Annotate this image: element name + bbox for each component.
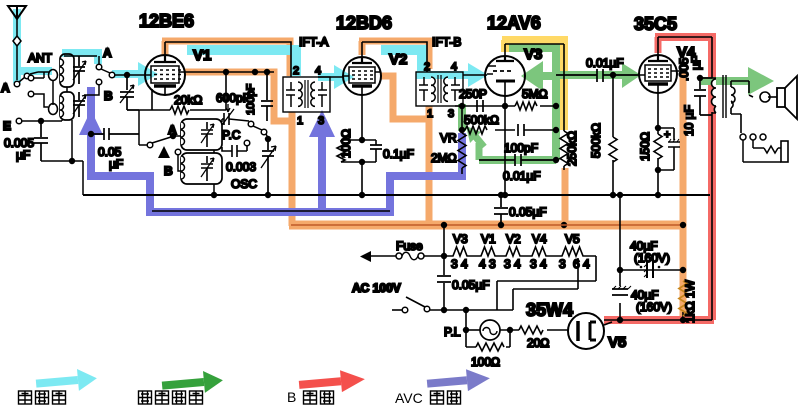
capacitor 0.01uF to V4 grid <box>556 69 639 82</box>
svg-text:0.01μF: 0.01μF <box>586 56 624 70</box>
wire switch to antenna coil <box>30 72 49 74</box>
wire osc boxes to ground <box>213 150 215 195</box>
wire cyan band + arrow into V1 grid <box>112 70 138 78</box>
svg-text:3: 3 <box>559 257 566 271</box>
wire green band: audio through 0.01uF coupling <box>479 156 556 164</box>
wire switch blade to V1 grid <box>101 69 110 73</box>
wire OPT secondary to speaker and jack <box>731 81 753 97</box>
svg-text:V5: V5 <box>608 334 626 351</box>
svg-text:3 4: 3 4 <box>504 257 521 271</box>
svg-text:500kΩ: 500kΩ <box>464 113 499 127</box>
wire green band + arrow: audio to V4 grid <box>560 71 624 79</box>
legend arrow 高周波 (RF) <box>35 367 98 394</box>
svg-text:35C5: 35C5 <box>634 14 677 34</box>
svg-text:0.05μF: 0.05μF <box>509 205 547 219</box>
svg-text:(160V): (160V) <box>636 300 672 314</box>
svg-text:2: 2 <box>293 65 299 77</box>
resistor 100 ohm shunt <box>466 330 510 347</box>
svg-text:VR: VR <box>440 131 457 145</box>
svg-text:4 3: 4 3 <box>479 257 496 271</box>
capacitor VC2 (tuning, lower) <box>73 92 85 117</box>
wire orange band: V2 plate feed to IFT-B <box>359 41 366 55</box>
wire cyan band: V1 plate IF signal to IFT-A pin2 <box>187 50 296 76</box>
wire orange band: V4 screen down to B+ bus <box>680 71 687 225</box>
svg-text:Fuse: Fuse <box>396 239 423 253</box>
wire green arrow pointing back into V3 <box>541 72 554 80</box>
svg-text:(160V): (160V) <box>634 251 670 265</box>
volume control VR 500k with wiper <box>462 106 465 130</box>
legend arrow AVC 電圧 (AVC voltage) <box>426 367 491 394</box>
svg-text:12BE6: 12BE6 <box>139 11 194 31</box>
antenna coil T1 primary (upper loop) <box>28 75 34 81</box>
antenna <box>8 6 26 19</box>
fuse <box>360 251 371 262</box>
wire orange band: B+ bus down through 1k filter resistor <box>680 225 687 318</box>
wire green band + arrow: output transformer to speaker <box>701 77 750 85</box>
capacitor (padder in box B) <box>201 156 213 181</box>
resistor VR 2M ohm (volume) <box>458 133 466 174</box>
svg-text:+: + <box>664 129 670 141</box>
svg-text:10 μF: 10 μF <box>682 105 696 136</box>
wire yellow band: V3 plate load <box>501 40 509 52</box>
wire orange band: IFT-A pin1 down to B+ bus <box>289 112 296 226</box>
wire cyan band: switch to antenna coil primary <box>21 67 52 75</box>
svg-text:100Ω: 100Ω <box>471 355 500 369</box>
wire orange band: V1 screen grid feed <box>184 72 291 121</box>
svg-text:V4: V4 <box>532 232 547 246</box>
svg-text:12AV6: 12AV6 <box>487 13 541 33</box>
wire V2 plate to IFT-B pin2 <box>362 42 427 72</box>
svg-text:B: B <box>287 389 296 405</box>
node A (coil selector contact) <box>96 64 102 70</box>
svg-text:V1: V1 <box>481 232 496 246</box>
antenna coil T1 lower secondary winding <box>60 92 74 120</box>
svg-text:6 4: 6 4 <box>573 257 590 271</box>
svg-text:AC 100V: AC 100V <box>352 281 401 295</box>
svg-text:V3: V3 <box>453 232 468 246</box>
wire orange band: 250k feeder up from bus <box>562 168 569 225</box>
svg-text:V3: V3 <box>524 46 542 63</box>
wire IFT-A pin4 to V2 grid <box>318 76 343 78</box>
capacitor 0.01uF audio coupling <box>479 154 556 166</box>
wire AC feed riser <box>443 225 445 310</box>
resistor 20 ohm <box>519 326 568 334</box>
svg-text:0.01μF: 0.01μF <box>503 169 541 183</box>
wire cyan band + arrow: IFT-A pin4 to V2 grid <box>318 73 336 81</box>
svg-text:3 4: 3 4 <box>530 257 547 271</box>
oscillator coil box A (upper) <box>181 119 222 150</box>
wire AVC blue arrowhead on antenna coil feeder <box>79 110 103 135</box>
wire orange band: V1 plate to IFT-A pin2 (B voltage) <box>162 41 169 55</box>
wire V1 screen feed <box>184 71 274 73</box>
svg-text:250kΩ: 250kΩ <box>565 131 579 166</box>
svg-text:35W4: 35W4 <box>526 300 573 320</box>
wire B+ bus <box>291 224 683 226</box>
svg-text:20kΩ: 20kΩ <box>174 93 202 107</box>
resistor 150 ohm cathode + capacitor 10uF <box>657 95 659 195</box>
svg-text:OSC: OSC <box>231 177 257 191</box>
svg-text:A: A <box>1 81 10 95</box>
svg-text:μF: μF <box>689 56 703 70</box>
node B (coil selector contact) <box>96 79 102 85</box>
svg-text:100Ω: 100Ω <box>339 129 353 158</box>
capacitor 0.003 (osc coupling) <box>244 140 250 146</box>
svg-text:μF: μF <box>109 157 123 171</box>
wire cyan band + arrow: IFT-B pin4 along box top to V3 grid <box>416 71 470 79</box>
resistor 20k ohm <box>139 74 226 110</box>
capacitor (osc grid trimmer) <box>120 75 139 110</box>
svg-text:IFT-A: IFT-A <box>299 35 328 49</box>
wire coil top to tuning line <box>64 55 97 57</box>
capacitor 0.05uF B+ bypass <box>494 195 508 225</box>
wire AVC bus <box>152 210 390 212</box>
svg-text:B: B <box>164 164 173 178</box>
earphone jack circle <box>760 92 770 102</box>
svg-text:3: 3 <box>318 115 324 127</box>
resistor 1k ohm 1W filter <box>682 312 684 320</box>
resistor 100 ohm cathode bias + capacitor 0.1uF <box>341 95 376 195</box>
wire rectifier output <box>604 320 712 325</box>
svg-text:4: 4 <box>315 65 321 77</box>
wire green band: detector output down to volume control <box>458 104 466 131</box>
svg-text:A: A <box>103 46 112 60</box>
transformer OPT output <box>712 79 717 113</box>
svg-text:250P: 250P <box>459 87 487 101</box>
capacitor 40uF (160V) second filter <box>612 289 628 295</box>
wire V3 plate up (to load and audio takeoff) <box>505 44 564 131</box>
svg-text:150Ω: 150Ω <box>638 132 652 161</box>
svg-text:0.05μF: 0.05μF <box>452 278 490 292</box>
svg-text:600pF: 600pF <box>216 91 250 105</box>
node B (osc selector) <box>158 146 170 158</box>
antenna coil T1 secondary (upper winding) <box>60 54 74 87</box>
svg-text:1: 1 <box>427 108 433 120</box>
tube V1 12BE6 converter <box>145 55 185 95</box>
resistor 250k ohm plate load <box>560 131 568 170</box>
legend arrow 音声信号 (audio) <box>161 369 224 396</box>
svg-text:4: 4 <box>451 61 457 73</box>
wire cyan band: V2 plate IF to IFT-B pin2 <box>381 50 422 71</box>
tube V2 12BD6 IF amplifier <box>343 57 381 95</box>
wire AVC blue band + arrow: feeder to IFT-A pin3 <box>318 134 326 212</box>
svg-text:V1: V1 <box>193 47 211 64</box>
wire bottom of antenna coil to ground rail <box>41 120 83 195</box>
wire orange band: IFT-B pin1 down to B+ bus <box>426 106 433 226</box>
svg-text:B: B <box>104 89 113 103</box>
wire orange band: V2 screen feed <box>381 76 429 119</box>
capacitor 40uF (160V) first filter <box>620 269 683 271</box>
resistor 5M ohm <box>505 105 556 107</box>
svg-text:20Ω: 20Ω <box>527 336 549 350</box>
svg-text:1: 1 <box>297 115 303 127</box>
speaker SP <box>777 88 785 107</box>
svg-text:V2: V2 <box>389 51 407 68</box>
tube V4 35C5 output <box>639 55 677 93</box>
svg-text:IFT-B: IFT-B <box>432 35 461 49</box>
wire cyan band: coil secondary top to A contact <box>62 53 98 64</box>
wire diode line with capacitor 250P <box>455 105 505 107</box>
svg-text:E: E <box>3 119 11 133</box>
node A (antenna selector switch) <box>14 81 20 87</box>
antenna coil T1 lower primary loop <box>28 91 34 97</box>
wire AVC blue band: main run <box>91 87 462 212</box>
svg-text:V5: V5 <box>565 232 580 246</box>
ground bus <box>83 194 710 196</box>
svg-text:0.1μF: 0.1μF <box>383 147 414 161</box>
wire grid return riser <box>138 110 140 145</box>
capacitor VC1 (tuning, upper) <box>73 56 85 84</box>
wire B+ bus orange band <box>289 221 686 230</box>
svg-text:12BD6: 12BD6 <box>336 13 392 33</box>
wire V4 plate to output transformer <box>658 37 712 320</box>
legend arrow B 電圧 (B voltage) <box>298 368 366 396</box>
wire green band: V3 plate audio <box>509 48 556 160</box>
svg-text:P.C: P.C <box>222 128 241 142</box>
svg-text:1kΩ 1W: 1kΩ 1W <box>683 279 697 323</box>
svg-text:2MΩ: 2MΩ <box>431 151 457 165</box>
wire filter rail <box>619 195 621 320</box>
heater chain V3 V1 V2 V4 V5 <box>452 247 596 256</box>
capacitor (osc section of tuning gang) <box>262 138 274 195</box>
capacitor 100pF <box>261 72 273 121</box>
svg-text:5MΩ: 5MΩ <box>522 87 548 101</box>
svg-text:ANT: ANT <box>28 51 53 65</box>
capacitor 0.005uF <box>34 121 48 161</box>
svg-text:P.L: P.L <box>444 325 461 339</box>
capacitor 0.05uF (AVC decoupling) <box>89 132 93 136</box>
tube V3 12AV6 detector/AF amp <box>485 56 525 96</box>
tube V5 35W4 rectifier <box>568 313 604 349</box>
capacitor (padder in box A) <box>201 122 213 147</box>
wire V3 cathode down to ground <box>504 96 506 195</box>
wire red band: V4 plate B voltage <box>655 37 662 53</box>
wire green wiper arrow on VR <box>475 136 484 147</box>
capacitor 100pF <box>518 124 524 136</box>
capacitor .005uF tone <box>694 78 712 115</box>
svg-text:100pF: 100pF <box>504 141 538 155</box>
wire V1 plate to IFT-A pin2 <box>165 42 291 77</box>
capacitor 0.05uF line bypass <box>437 276 451 282</box>
transformer IFT-B <box>416 72 463 106</box>
svg-text:V2: V2 <box>506 232 521 246</box>
resistor 500k ohm V4 grid leak <box>612 75 614 195</box>
svg-text:AVC: AVC <box>395 390 423 406</box>
wire 高周波 cyan band: antenna mast down to band switch <box>13 9 21 83</box>
wire red band: rectifier output <box>604 316 714 324</box>
svg-text:3: 3 <box>448 108 454 120</box>
oscillator coil box B (lower) <box>181 153 222 184</box>
jack contacts <box>740 134 746 140</box>
svg-text:0.003: 0.003 <box>226 160 256 174</box>
wire IFT-B pin4 to V3 grid <box>463 74 485 76</box>
transformer IFT-A <box>283 77 330 112</box>
svg-text:μF: μF <box>16 148 30 162</box>
svg-text:2: 2 <box>424 61 430 73</box>
svg-text:3 4: 3 4 <box>451 257 468 271</box>
svg-text:500kΩ: 500kΩ <box>589 123 603 158</box>
